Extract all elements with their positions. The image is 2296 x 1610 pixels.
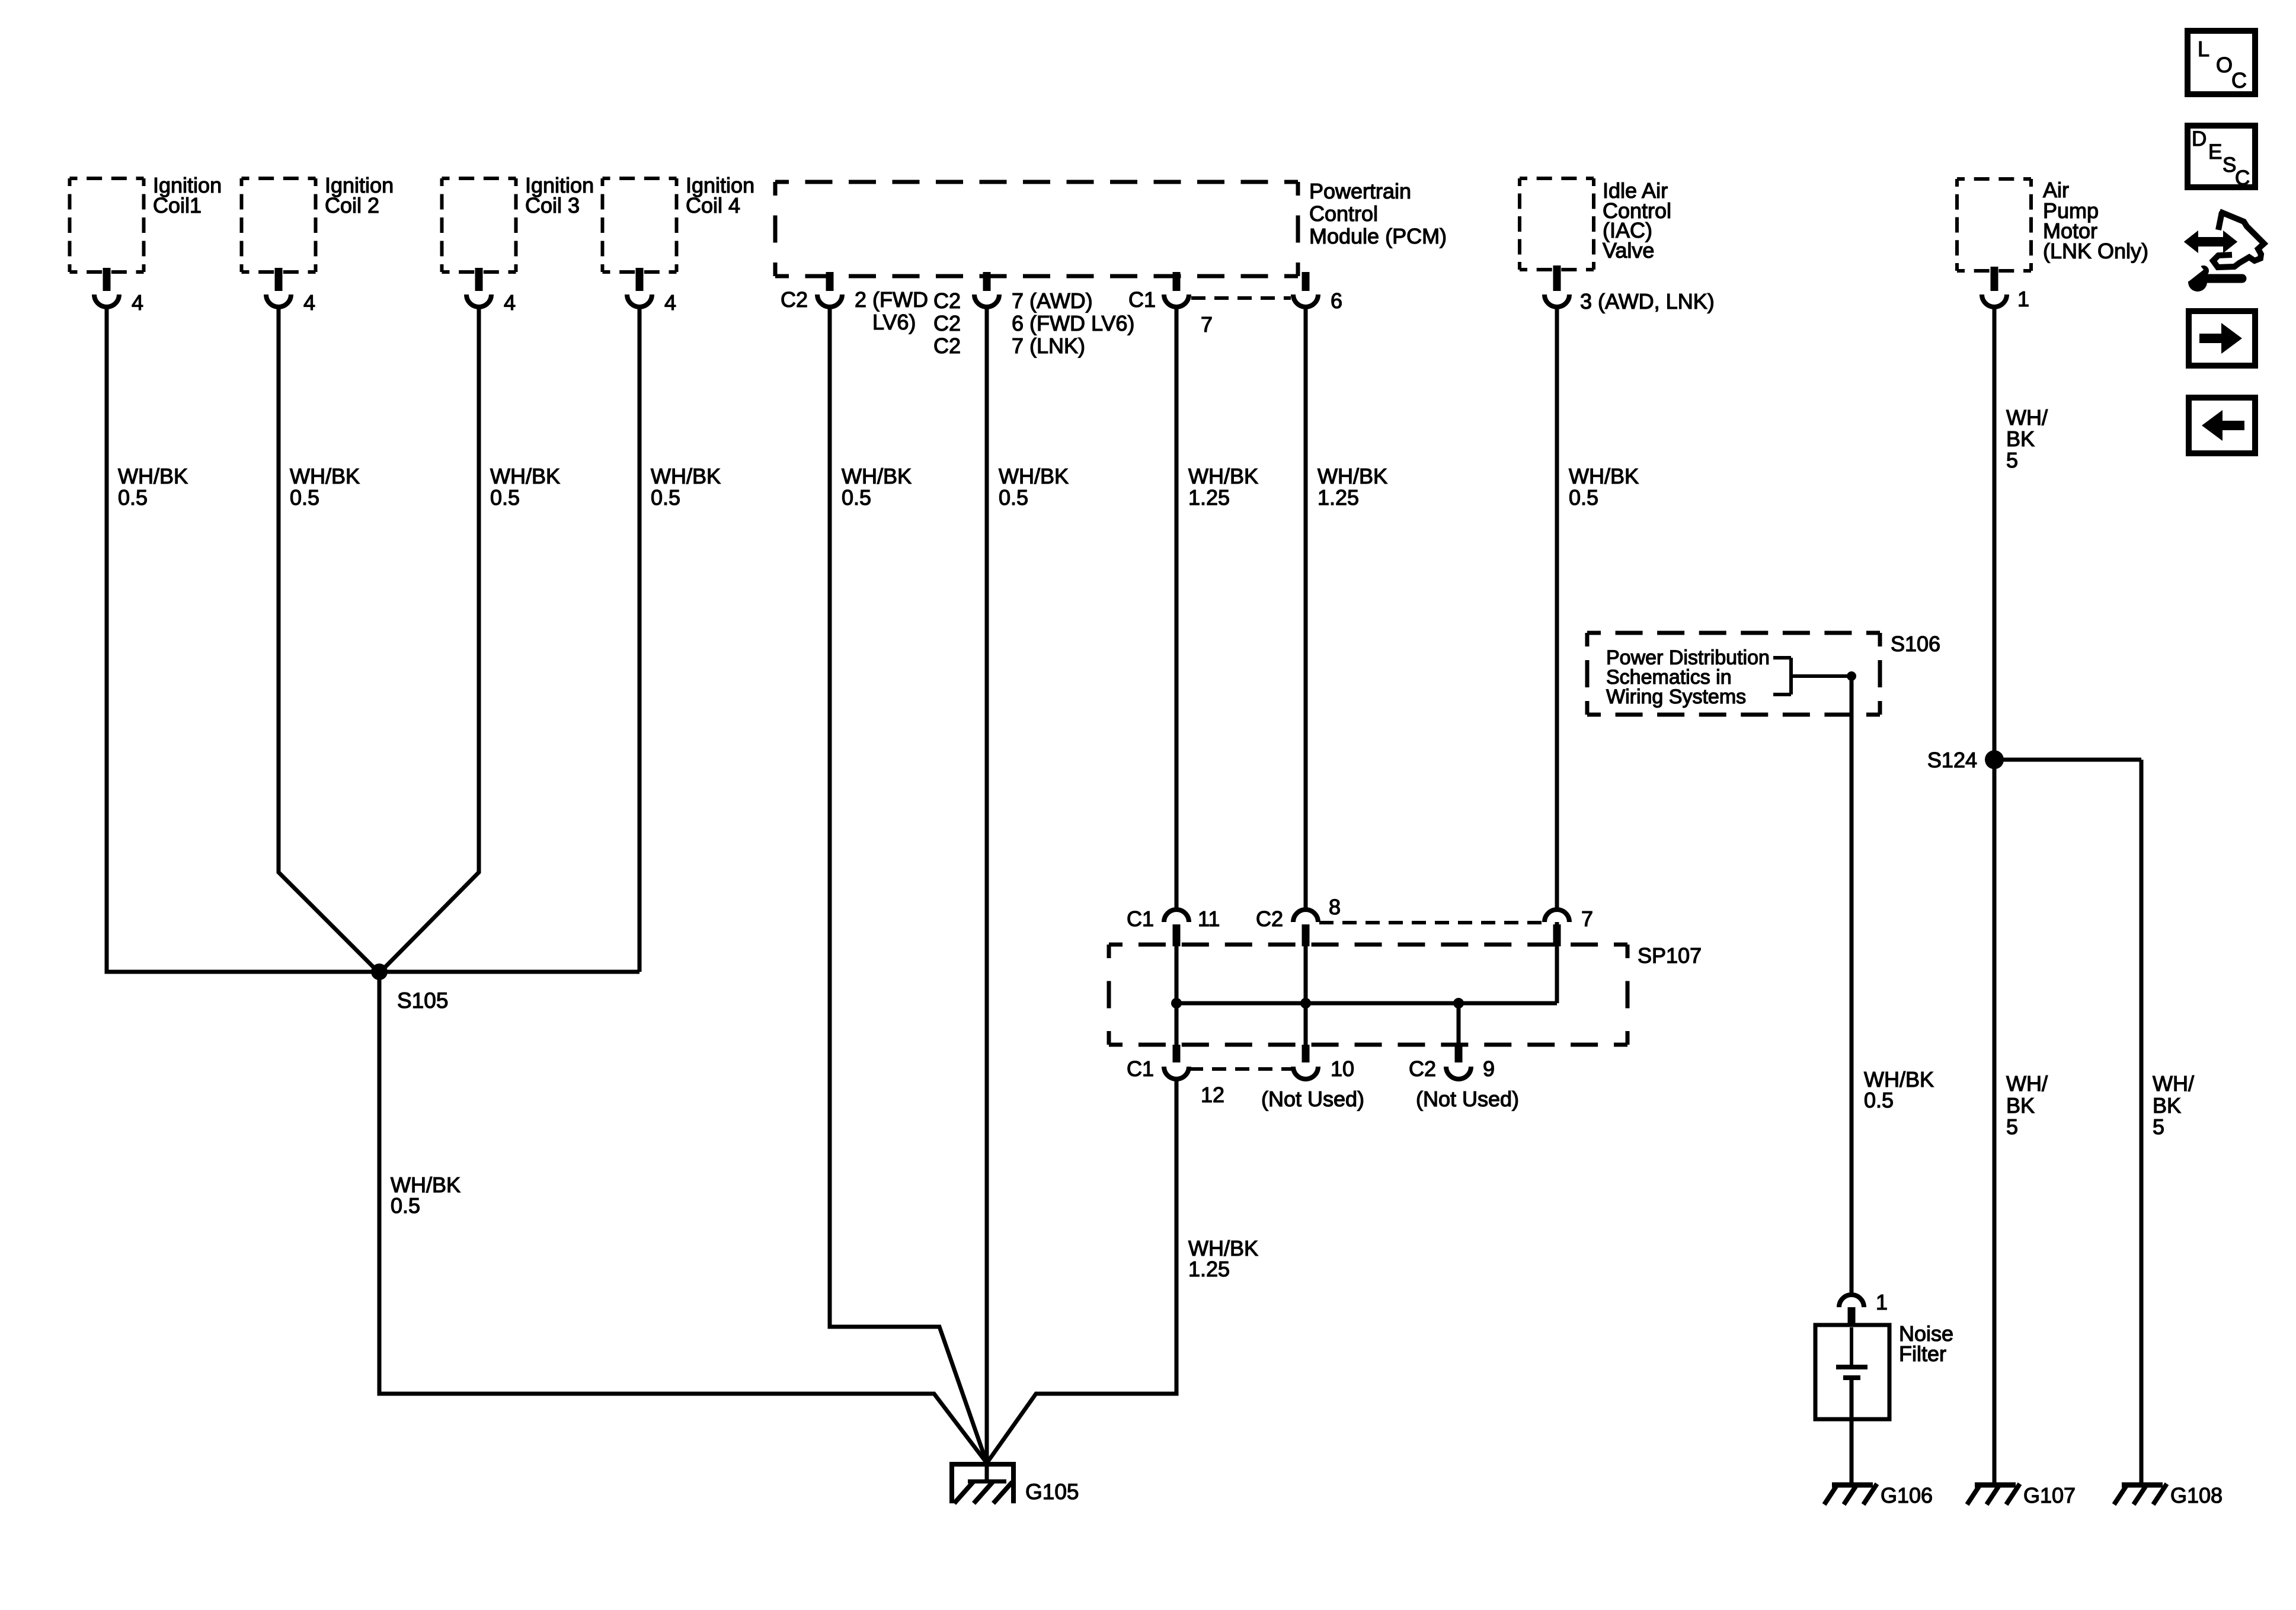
svg-text:(Not Used): (Not Used) <box>1261 1087 1364 1111</box>
svg-text:C2: C2 <box>933 311 961 335</box>
svg-text:G107: G107 <box>2023 1483 2076 1507</box>
svg-text:3 (AWD, LNK): 3 (AWD, LNK) <box>1580 289 1715 313</box>
svg-text:4: 4 <box>132 290 143 315</box>
svg-text:WH/BK: WH/BK <box>1318 464 1387 488</box>
svg-text:2 (FWD: 2 (FWD <box>855 287 928 312</box>
svg-text:WH/BK: WH/BK <box>490 464 560 488</box>
svg-text:Powertrain: Powertrain <box>1309 179 1411 203</box>
svg-text:C2: C2 <box>1409 1057 1436 1081</box>
svg-text:WH/: WH/ <box>2006 1071 2048 1096</box>
svg-text:6: 6 <box>1331 289 1342 313</box>
svg-text:7: 7 <box>1201 312 1213 337</box>
svg-text:0.5: 0.5 <box>651 485 680 510</box>
svg-text:8: 8 <box>1329 895 1341 919</box>
svg-text:6 (FWD LV6): 6 (FWD LV6) <box>1012 311 1134 335</box>
svg-text:0.5: 0.5 <box>490 485 520 510</box>
svg-text:C1: C1 <box>1127 1057 1154 1081</box>
svg-text:WH/BK: WH/BK <box>651 464 721 488</box>
svg-text:7: 7 <box>1581 907 1593 931</box>
svg-text:S106: S106 <box>1891 632 1940 656</box>
svg-text:C: C <box>2231 68 2247 92</box>
svg-text:Coil 2: Coil 2 <box>325 193 379 217</box>
svg-text:D: D <box>2192 127 2207 151</box>
svg-text:WH/BK: WH/BK <box>290 464 360 488</box>
svg-text:BK: BK <box>2006 1093 2035 1118</box>
svg-text:BK: BK <box>2006 427 2035 451</box>
svg-text:WH/: WH/ <box>2006 405 2048 430</box>
svg-text:BK: BK <box>2153 1093 2181 1118</box>
svg-text:1: 1 <box>2017 287 2029 311</box>
svg-text:C1: C1 <box>1128 287 1156 312</box>
svg-text:1: 1 <box>1876 1290 1888 1314</box>
svg-text:C: C <box>2235 167 2250 190</box>
svg-text:0.5: 0.5 <box>391 1193 420 1218</box>
svg-text:G108: G108 <box>2170 1483 2223 1507</box>
svg-text:Module (PCM): Module (PCM) <box>1309 224 1447 248</box>
svg-text:C1: C1 <box>1127 907 1154 931</box>
svg-text:Coil 4: Coil 4 <box>686 193 740 217</box>
svg-text:0.5: 0.5 <box>1864 1088 1894 1112</box>
svg-text:WH/BK: WH/BK <box>118 464 188 488</box>
svg-text:(Not Used): (Not Used) <box>1416 1087 1519 1111</box>
svg-text:WH/BK: WH/BK <box>1569 464 1639 488</box>
svg-text:WH/BK: WH/BK <box>999 464 1069 488</box>
svg-text:0.5: 0.5 <box>290 485 319 510</box>
svg-text:Valve: Valve <box>1603 238 1654 263</box>
svg-text:1.25: 1.25 <box>1318 485 1359 510</box>
svg-text:4: 4 <box>303 290 315 315</box>
svg-text:C2: C2 <box>781 287 808 312</box>
svg-text:(LNK Only): (LNK Only) <box>2043 239 2148 263</box>
svg-text:0.5: 0.5 <box>999 485 1028 510</box>
svg-text:5: 5 <box>2006 1115 2018 1139</box>
svg-text:SP107: SP107 <box>1638 943 1702 968</box>
svg-text:5: 5 <box>2006 448 2018 472</box>
svg-text:0.5: 0.5 <box>1569 485 1598 510</box>
svg-text:E: E <box>2208 140 2222 164</box>
svg-text:5: 5 <box>2153 1115 2164 1139</box>
svg-text:WH/BK: WH/BK <box>842 464 912 488</box>
svg-text:9: 9 <box>1483 1057 1495 1081</box>
svg-text:7 (LNK): 7 (LNK) <box>1012 334 1085 358</box>
svg-text:1.25: 1.25 <box>1188 485 1230 510</box>
svg-text:Filter: Filter <box>1899 1342 1946 1366</box>
svg-text:S124: S124 <box>1927 748 1977 772</box>
svg-text:WH/: WH/ <box>2153 1071 2194 1096</box>
svg-text:L: L <box>2198 37 2209 61</box>
svg-text:0.5: 0.5 <box>842 485 871 510</box>
svg-text:C2: C2 <box>1256 907 1283 931</box>
svg-text:4: 4 <box>504 290 516 315</box>
svg-text:12: 12 <box>1201 1083 1224 1107</box>
svg-text:1.25: 1.25 <box>1188 1257 1230 1281</box>
svg-text:C2: C2 <box>933 289 961 313</box>
svg-text:G105: G105 <box>1025 1480 1079 1504</box>
svg-text:S105: S105 <box>397 988 448 1013</box>
svg-text:Wiring Systems: Wiring Systems <box>1606 686 1746 708</box>
svg-text:LV6): LV6) <box>872 310 916 334</box>
svg-text:WH/BK: WH/BK <box>1188 464 1258 488</box>
svg-text:11: 11 <box>1198 907 1220 931</box>
svg-text:4: 4 <box>664 290 676 315</box>
svg-text:10: 10 <box>1331 1057 1354 1081</box>
svg-text:O: O <box>2216 53 2233 77</box>
svg-text:C2: C2 <box>933 334 961 358</box>
svg-text:Coil 3: Coil 3 <box>525 193 580 217</box>
svg-text:S: S <box>2223 153 2236 177</box>
svg-text:0.5: 0.5 <box>118 485 148 510</box>
svg-text:7 (AWD): 7 (AWD) <box>1012 289 1093 313</box>
svg-text:Coil1: Coil1 <box>153 193 202 217</box>
svg-text:G106: G106 <box>1881 1483 1933 1507</box>
svg-text:Control: Control <box>1309 201 1378 226</box>
